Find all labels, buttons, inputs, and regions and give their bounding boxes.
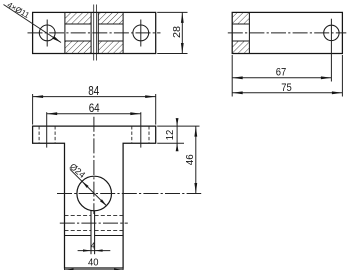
arrow 67 left <box>232 76 243 79</box>
big bore circle D24 <box>77 176 112 211</box>
extension line 84 right <box>155 94 157 125</box>
boss left edge <box>64 12 66 53</box>
svg-text:40: 40 <box>88 256 99 268</box>
hidden edge hole1 left <box>38 126 40 143</box>
top view outline <box>33 12 156 53</box>
extension line flange top right <box>157 125 199 127</box>
extension stem right below <box>122 268 124 270</box>
step line right part <box>95 235 124 237</box>
side view hatch band upper <box>232 12 249 24</box>
vertical crosshair of right hole <box>140 20 142 47</box>
horizontal centerline of top view <box>28 32 161 34</box>
hidden edge hole2 right <box>148 126 150 143</box>
slot edge left <box>90 211 92 255</box>
arrow 4 right (outside) <box>95 249 103 251</box>
hole2 centerline / 64 extension right <box>140 112 142 147</box>
leader arrowhead <box>53 36 61 42</box>
side view outline <box>232 12 342 53</box>
seam right boundary <box>97 12 99 53</box>
dimension line 64 <box>47 113 141 115</box>
step line left part <box>65 235 92 237</box>
svg-text:Ø24: Ø24 <box>68 161 87 180</box>
hatch band lower-left of section A <box>65 41 91 54</box>
dimension line 12 <box>176 119 178 152</box>
hidden cross-hole bottom right part <box>95 230 124 232</box>
vertical crosshair of left hole <box>46 20 48 47</box>
svg-text:28: 28 <box>171 26 183 38</box>
leader line of 4xD11 label <box>4 5 62 43</box>
arrow 12 bottom (outside) <box>176 143 179 151</box>
hidden cross-hole bottom left part <box>65 230 92 232</box>
hidden edge hole1 right <box>54 126 56 143</box>
extension line 28 top <box>157 11 187 13</box>
side view slot bottom edge <box>232 40 249 42</box>
hole1 centerline / 64 extension left <box>46 112 48 147</box>
svg-text:4: 4 <box>91 242 96 251</box>
arrow 64 left <box>47 112 58 115</box>
side view slot top edge <box>232 23 249 25</box>
hidden cross-hole top left part <box>65 214 92 216</box>
slot edge right <box>94 211 96 255</box>
arrow 84 left <box>33 95 44 98</box>
svg-text:67: 67 <box>276 66 287 78</box>
arrow 40 right <box>114 269 123 270</box>
side view hole circle <box>324 25 339 40</box>
arrow 75 right <box>332 91 343 94</box>
horizontal centerline of side view <box>228 32 346 34</box>
arrow 28 top <box>181 12 184 23</box>
hidden edge hole2 left <box>131 126 133 143</box>
circle horizontal centerline / 46 extension <box>57 193 201 195</box>
hatch band lower-right of section A <box>98 41 123 54</box>
arrow 46 bottom <box>194 183 197 194</box>
left extension below side view <box>231 55 233 97</box>
arrow 84 right <box>145 95 156 98</box>
svg-text:12: 12 <box>165 129 176 140</box>
side view hatch band lower <box>232 41 249 54</box>
seam left boundary <box>90 12 92 53</box>
cross-hole centerline <box>60 222 128 224</box>
slot bottom edge left half <box>65 40 91 42</box>
svg-text:4×Ø11: 4×Ø11 <box>6 0 32 20</box>
boss right edge <box>122 12 124 53</box>
svg-text:46: 46 <box>184 154 196 165</box>
D24 leader line <box>70 169 107 206</box>
dimension line 67 <box>232 77 331 79</box>
svg-text:64: 64 <box>89 101 100 115</box>
hatch band upper-left of section A <box>65 12 91 24</box>
arrow 75 left <box>232 91 243 94</box>
dimension line 46 <box>195 126 197 193</box>
extension line 84 left <box>32 94 34 125</box>
D24 arrow upper-left <box>82 181 89 188</box>
slot top edge left half <box>65 23 91 25</box>
arrow 64 right <box>130 112 141 115</box>
center seam line 2 <box>96 5 98 61</box>
vertical crosshair + 67 extension <box>330 19 332 82</box>
dimension line 4 <box>78 250 111 252</box>
hole circle left (D11) <box>39 25 55 41</box>
D24 arrow lower-right <box>100 199 107 206</box>
right extension below side view <box>341 55 343 97</box>
arrow 46 top <box>194 126 197 137</box>
slot top edge right half <box>98 23 123 25</box>
arrow 67 right <box>321 76 332 79</box>
hole circle right (D11) <box>133 25 149 41</box>
dimension line 28 <box>181 12 183 53</box>
side view hatch right boundary <box>248 12 250 53</box>
svg-text:75: 75 <box>281 82 292 94</box>
extension line flange bottom right <box>157 142 184 144</box>
dimension line 84 <box>33 96 156 98</box>
hidden cross-hole top right part <box>95 214 124 216</box>
front view outline (T shape) <box>33 126 156 268</box>
center seam line 1 <box>93 5 95 61</box>
hatch band upper-right of section A <box>98 12 123 24</box>
arrow 28 bottom <box>181 43 184 54</box>
dimension line 75 <box>232 92 342 94</box>
slot bottom edge right half <box>98 40 123 42</box>
dimension line 40 <box>65 269 124 270</box>
arrow 40 left <box>65 269 74 270</box>
arrow 4 left (outside) <box>83 249 91 251</box>
arrow 12 top (outside) <box>176 118 179 126</box>
svg-text:84: 84 <box>88 84 99 98</box>
front view vertical centerline <box>93 117 95 214</box>
extension stem left below <box>64 268 66 270</box>
extension line 28 bottom <box>157 53 187 55</box>
